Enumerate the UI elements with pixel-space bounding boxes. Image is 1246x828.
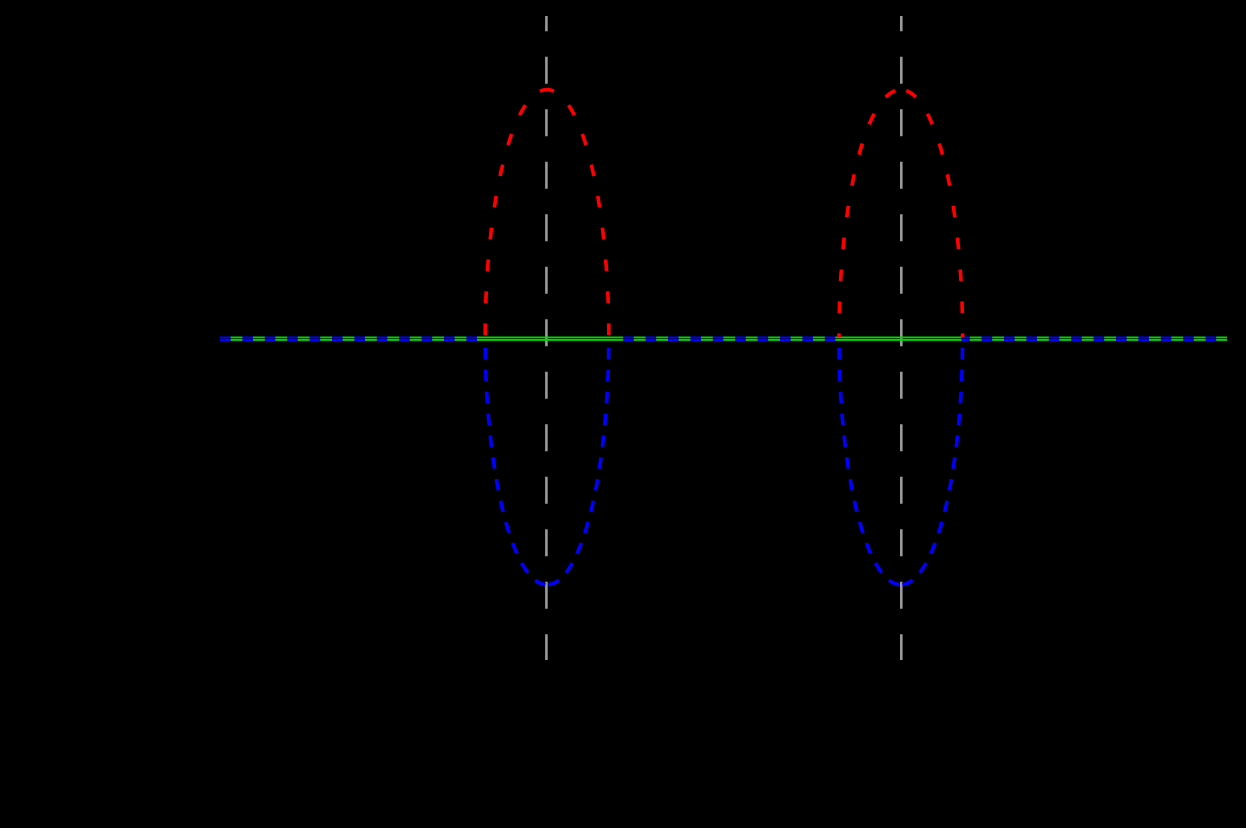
blue dashed overlay on upper horizontal line: [220, 336, 1216, 338]
gray dashed vertical center line 1 (x=546.4): [545, 16, 548, 660]
red dashed upper half of ellipse 2, right branch: [906, 91, 962, 338]
red dashed upper half of ellipse 1, right branch: [547, 90, 609, 335]
blue dashed lower half of ellipse 2, right branch: [902, 348, 962, 585]
red dashed upper half of ellipse 2, left branch: [839, 91, 895, 338]
blue dashed lower half of ellipse 1, right branch: [549, 348, 609, 585]
blue dashed lower half of ellipse 2, left branch: [839, 348, 899, 585]
red dashed upper half of ellipse 1, left branch: [485, 90, 547, 335]
green solid horizontal line (upper branch): [220, 336, 1227, 338]
gray dashed vertical center line 2 (x=901.3): [900, 16, 903, 660]
blue dashed overlay on lower horizontal line: [220, 339, 1216, 341]
green solid horizontal line (lower branch): [220, 339, 1227, 341]
blue dashed lower half of ellipse 1, left branch: [485, 348, 545, 585]
